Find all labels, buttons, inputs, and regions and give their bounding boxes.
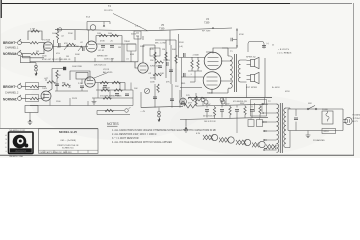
svg-text:NORMAL: NORMAL — [3, 52, 17, 56]
tube V7 — [86, 41, 97, 52]
left column wire — [181, 58, 183, 98]
wire — [39, 93, 45, 99]
heater socket H3 — [244, 139, 250, 145]
filter cap C11 — [250, 106, 254, 118]
logo donut center — [19, 140, 22, 143]
svg-text:3. * = 1 WATT RESISTOR: 3. * = 1 WATT RESISTOR — [112, 137, 139, 140]
dropping resistor R29 — [259, 105, 261, 118]
svg-text:350V: 350V — [179, 42, 184, 44]
wire to ground — [185, 119, 187, 126]
resistor R33 — [153, 73, 161, 75]
plate wire — [53, 46, 88, 48]
svg-text:4. ALL VOLTAGE READINGS WITH N: 4. ALL VOLTAGE READINGS WITH NO SIGNAL A… — [112, 141, 172, 144]
svg-text:B+ 445V: B+ 445V — [272, 87, 280, 89]
driver lower rail — [141, 84, 180, 108]
tube V3 — [85, 77, 95, 87]
svg-text:100K: 100K — [150, 82, 155, 84]
svg-text:7199: 7199 — [159, 28, 165, 31]
B+ center tap — [230, 73, 268, 75]
svg-text:470*: 470* — [188, 103, 192, 105]
lower bus ch2 — [30, 105, 133, 107]
resistor R7 — [99, 34, 107, 36]
core — [235, 54, 237, 92]
top jog to grid — [206, 52, 213, 54]
core — [280, 103, 282, 153]
resistor R5h — [67, 43, 75, 45]
resistor R4 — [56, 28, 58, 43]
chassis ground — [307, 131, 309, 136]
ground — [28, 122, 33, 125]
resistor R19 — [184, 104, 197, 108]
dropping resistor R28 — [244, 105, 246, 118]
resistor R3 — [31, 30, 39, 32]
shield box ch2 bright — [26, 83, 39, 90]
ground — [92, 102, 97, 105]
pot wiper arrow — [64, 45, 68, 50]
drops — [50, 98, 88, 106]
osc box loop — [96, 36, 122, 43]
stub cap C18 — [231, 38, 237, 41]
tube V5 — [138, 63, 148, 73]
tap end marks — [263, 103, 264, 151]
arrow — [185, 127, 188, 129]
svg-text:2.7M: 2.7M — [30, 29, 35, 31]
wire loop — [87, 22, 110, 31]
cap C16 — [170, 99, 174, 101]
loop cap C19 — [262, 46, 266, 48]
resistor R15 — [191, 57, 193, 71]
junction circle 2 — [221, 98, 225, 105]
resistor R16 — [197, 57, 199, 71]
svg-text:NOTES: NOTES — [107, 122, 119, 126]
filter cap C10 — [235, 106, 239, 118]
svg-text:LINDEN N.J. USA: LINDEN N.J. USA — [9, 155, 23, 158]
small corner box — [134, 31, 141, 39]
arrow — [158, 117, 161, 122]
svg-text:SPKR 2Ω: SPKR 2Ω — [246, 57, 256, 59]
top rail — [141, 106, 183, 107]
svg-text:DWN BY APP'D SCALE NO. DATE: DWN BY APP'D SCALE NO. DATE REV — [40, 151, 73, 154]
svg-text:1.4 —: 1.4 — — [135, 26, 142, 28]
wire to ground — [93, 98, 95, 102]
can cap rect 1 — [248, 118, 254, 126]
svg-text:E: E — [6, 147, 7, 149]
wire jack1 to grid — [22, 42, 31, 44]
wire — [23, 43, 45, 58]
cap C20 — [55, 84, 59, 86]
svg-text:6.8K: 6.8K — [130, 54, 135, 56]
resistor R10 — [112, 81, 120, 83]
twisted pair zigzag — [203, 135, 276, 149]
plate wires — [212, 48, 228, 93]
heater socket H4 — [259, 141, 265, 147]
resistor R11c — [103, 97, 111, 99]
bead 2 — [158, 114, 161, 117]
aux box — [150, 48, 160, 56]
svg-text:100K 4.7M: 100K 4.7M — [104, 59, 114, 61]
logo frame — [9, 132, 34, 154]
wire to ground — [30, 63, 36, 65]
resistor R11b — [114, 89, 122, 91]
svg-text:PRINTS THRU THE OF: PRINTS THRU THE OF — [57, 145, 79, 147]
svg-text:10K 7025 .01: 10K 7025 .01 — [94, 65, 107, 67]
bias loop — [248, 42, 264, 53]
cap C7 — [183, 73, 185, 77]
svg-text:1M: 1M — [36, 51, 39, 53]
cap C15 — [153, 97, 157, 99]
callout line — [94, 73, 108, 79]
junction dots — [236, 29, 237, 30]
wire — [22, 86, 31, 88]
svg-text:60 CY: 60 CY — [353, 121, 359, 123]
svg-text:7199: 7199 — [204, 22, 210, 25]
terminal blob — [63, 67, 66, 70]
input jack J1 — [15, 39, 21, 45]
filter cap C9 — [220, 106, 224, 118]
resistor R30 — [157, 84, 159, 92]
ground — [306, 135, 311, 138]
svg-text:425V: 425V — [285, 91, 290, 93]
svg-text:330V: 330V — [240, 103, 245, 105]
screen feed vertical — [236, 28, 238, 48]
lower line — [180, 117, 268, 119]
cathode resistor R17 — [195, 93, 197, 104]
svg-text:100K: 100K — [52, 33, 57, 35]
cap C2 — [101, 46, 105, 48]
svg-text:.02 .02: .02 .02 — [98, 50, 105, 52]
resistor R24 — [45, 80, 55, 83]
rectifier SR1 — [180, 98, 187, 105]
fuse F1 — [322, 111, 333, 124]
wire — [222, 47, 237, 49]
svg-text:BRIGHT: BRIGHT — [3, 41, 15, 45]
tap specks — [264, 122, 267, 149]
wire to ground — [29, 113, 31, 120]
svg-text:POLARIZED: POLARIZED — [313, 139, 325, 142]
ext speaker jack SP2 — [251, 72, 260, 83]
secondary winding HV — [277, 104, 279, 152]
resistor R22 — [30, 97, 38, 99]
pot box P1 — [76, 73, 88, 80]
resistor R12 — [154, 52, 156, 60]
feedback drop — [246, 84, 248, 98]
pot drops — [98, 83, 133, 106]
bottom strip — [39, 150, 99, 153]
box — [39, 129, 99, 154]
wire jack2 to grid — [22, 53, 32, 55]
leader line to T4 — [113, 14, 148, 32]
svg-text:.1 560K: .1 560K — [192, 55, 200, 57]
svg-text:INTLK: INTLK — [324, 131, 330, 133]
svg-text:POLARIZED: POLARIZED — [353, 114, 360, 117]
resistor R2 — [31, 53, 39, 55]
riser — [129, 107, 131, 109]
plate riser — [143, 45, 155, 63]
svg-text:117V A.C.: 117V A.C. — [353, 117, 360, 120]
coupling cap C1 — [58, 43, 60, 47]
wire — [247, 61, 251, 65]
svg-text:113 CPS: 113 CPS — [104, 10, 113, 12]
svg-text:± D.C. READS: ± D.C. READS — [277, 52, 292, 55]
cap C3 — [103, 86, 107, 88]
svg-text:68K .1 270K: 68K .1 270K — [155, 43, 167, 45]
shield bead 2 — [35, 69, 38, 72]
wire drops ch2 — [57, 78, 82, 91]
border frame — [2, 3, 290, 5]
shield bead 1 — [35, 65, 38, 68]
cap C1b — [82, 47, 84, 51]
svg-text:CHANNEL 2: CHANNEL 2 — [5, 92, 19, 95]
logo disc — [13, 135, 27, 149]
junction circle — [125, 109, 129, 113]
cap C17 — [166, 62, 168, 66]
svg-text:SPEED INT: SPEED INT — [97, 56, 108, 58]
choke can box — [251, 100, 267, 117]
heater socket H1 — [211, 134, 217, 140]
svg-text:470K: 470K — [239, 34, 244, 36]
wire — [97, 111, 130, 115]
tube V6 — [90, 25, 96, 31]
cap C4 — [115, 94, 119, 96]
svg-text:P.P. 7199: P.P. 7199 — [202, 31, 211, 33]
secondary winding — [238, 60, 246, 82]
junction circle B — [220, 98, 224, 106]
mid wire — [96, 89, 133, 91]
wire — [188, 71, 202, 82]
wire — [169, 31, 171, 46]
switch box — [127, 44, 136, 51]
wire — [96, 43, 136, 45]
input jack J3 — [15, 83, 21, 89]
tube V1 — [43, 42, 52, 51]
background mottling — [0, 0, 360, 158]
svg-text:1. ALL CAPACITORS IN MFD UNLES: 1. ALL CAPACITORS IN MFD UNLESS OTHERWIS… — [112, 129, 217, 132]
pot wiper arrow 2 — [78, 46, 82, 51]
bead 1 — [158, 111, 161, 114]
svg-text:NORMAL: NORMAL — [3, 98, 17, 102]
wire — [39, 42, 46, 44]
input jack J2 — [15, 50, 21, 56]
svg-text:100K 220K: 100K 220K — [72, 66, 83, 68]
svg-text:EXT SPKR: EXT SPKR — [246, 87, 257, 89]
driver network verticals — [155, 34, 179, 84]
rail junction circle — [58, 28, 61, 31]
svg-text:SCHEM. NO.: SCHEM. NO. — [62, 148, 74, 150]
svg-text:— 4V: — 4V — [140, 111, 146, 113]
separator line above title area — [0, 128, 98, 130]
svg-text:500K: 500K — [140, 46, 145, 48]
wire — [104, 22, 110, 25]
svg-text:425V: 425V — [206, 104, 211, 106]
logo word band — [10, 148, 32, 152]
primary leads — [286, 108, 290, 148]
vertical drop — [60, 57, 112, 62]
wire top — [143, 36, 176, 40]
svg-text:FUSE: FUSE — [322, 109, 328, 111]
svg-text:6.3V: 6.3V — [196, 133, 201, 135]
wire — [22, 98, 31, 100]
svg-text:10K 4.7K 12K: 10K 4.7K 12K — [204, 121, 216, 123]
arrow — [35, 71, 38, 76]
heater feed — [237, 117, 278, 147]
svg-text:500K: 500K — [75, 54, 80, 56]
ground — [184, 130, 189, 133]
logo tail — [24, 144, 28, 148]
resistor R21 — [30, 85, 38, 87]
wire bus to driver — [135, 62, 138, 68]
cap C6 — [183, 53, 185, 57]
cap C21 — [80, 86, 84, 88]
svg-text:1M: 1M — [66, 56, 69, 58]
resistor R13 — [165, 52, 167, 60]
svg-text:VOLUME TREBLE BASS: VOLUME TREBLE BASS — [100, 95, 122, 98]
driver aux circle — [144, 88, 149, 93]
lower wire — [92, 97, 133, 99]
svg-text:470K: 470K — [100, 41, 105, 43]
svg-text:+ B VOLTS: + B VOLTS — [278, 49, 290, 51]
svg-text:CHANNEL 1: CHANNEL 1 — [5, 47, 19, 50]
filter cap C8 — [205, 106, 209, 118]
resistor R9 — [100, 81, 108, 83]
svg-text:220K: 220K — [150, 78, 155, 80]
tone chain wire — [95, 83, 125, 91]
resistor R11 — [101, 89, 109, 91]
arrow — [103, 25, 105, 27]
AC plug P1 — [344, 117, 353, 124]
right column wire — [264, 58, 266, 97]
loop wire ch2 — [70, 71, 90, 80]
logo donut — [17, 138, 24, 145]
bias tap network — [262, 92, 268, 98]
winding taps — [263, 98, 277, 151]
input jack J4 — [15, 95, 21, 101]
svg-text:TREM: TREM — [124, 41, 130, 43]
svg-text:250K 1M: 250K 1M — [102, 88, 110, 90]
resistor R1 — [30, 42, 38, 44]
wire — [197, 104, 268, 106]
line cap C12 — [294, 109, 298, 131]
svg-text:10M: 10M — [97, 33, 101, 35]
svg-text:56K: 56K — [172, 49, 176, 51]
plate rail ch2 — [48, 69, 63, 92]
svg-text:410V: 410V — [225, 103, 230, 105]
wire — [39, 86, 47, 88]
tube V3 output upper — [204, 52, 222, 70]
wire — [55, 90, 88, 92]
cap C2b — [110, 46, 114, 48]
lower grid wire — [180, 87, 202, 89]
svg-text:2. ALL RESISTORS 1/2W, 10%: 2. ALL RESISTORS 1/2W, 10% K = 1000 Ω — [112, 133, 157, 136]
svg-text:1M: 1M — [118, 47, 121, 49]
primary winding — [227, 48, 229, 93]
caps — [158, 66, 162, 68]
svg-text:RED: RED — [181, 83, 186, 85]
shield box ch2 normal — [26, 95, 39, 102]
switch SW1 — [307, 106, 317, 110]
shield bead ground mid — [158, 108, 160, 111]
svg-text:40/ 40/ 40/ 20/: 40/ 40/ 40/ 20/ — [203, 116, 216, 118]
svg-text:25/25: 25/25 — [72, 98, 78, 100]
junction circle A — [201, 98, 205, 106]
wire — [247, 76, 251, 80]
cap pair below bus — [181, 98, 185, 104]
dropping resistor R27 — [229, 106, 231, 118]
tube V4 output lower — [203, 72, 221, 90]
vertical drops — [122, 36, 138, 62]
svg-text:220K: 220K — [68, 33, 73, 35]
junction dot — [212, 27, 213, 28]
circuit rect — [288, 109, 343, 131]
svg-text:(+6): (+6) — [179, 46, 183, 48]
svg-text:10M: 10M — [108, 33, 112, 35]
svg-text:ALL 7025: ALL 7025 — [103, 71, 113, 74]
resistor R14 — [175, 55, 177, 63]
primary winding — [284, 108, 286, 148]
svg-text:ampeg: ampeg — [15, 149, 26, 153]
svg-text:(*): (*) — [272, 45, 274, 47]
resistor R32 — [155, 61, 163, 63]
svg-text:47K: 47K — [150, 49, 154, 51]
wire B+ bus — [188, 97, 272, 99]
svg-text:P: P — [6, 143, 7, 145]
can cap rect 2 — [257, 118, 263, 126]
plate supply rail — [54, 28, 233, 62]
svg-text:V2,V3: V2,V3 — [103, 69, 110, 71]
wire down — [88, 30, 90, 44]
cap C5 — [125, 94, 129, 96]
svg-text:470K .047 1M .02 250K 68: 470K .047 1M .02 250K 68K .01 — [42, 59, 71, 61]
svg-text:(+): (+) — [267, 43, 270, 45]
svg-text:THE AMPEG CO INC: THE AMPEG CO INC — [9, 129, 26, 132]
svg-text:N.F.B. 100K: N.F.B. 100K — [150, 66, 161, 68]
resistor R8 — [110, 34, 118, 36]
junction circle 1 — [204, 98, 208, 105]
svg-text:2.2M: 2.2M — [74, 46, 79, 48]
resistor R34 — [105, 109, 113, 111]
resistor R31 — [56, 70, 58, 78]
svg-text:V1 7025: V1 7025 — [42, 40, 51, 42]
cathode network box — [21, 57, 31, 63]
feedback loop box ch1 — [28, 31, 42, 40]
bias box lower left — [25, 106, 38, 113]
speaker SP1 — [251, 57, 260, 68]
svg-text:OM — (2x7868): OM — (2x7868) — [60, 140, 76, 142]
resistor R25 — [62, 84, 70, 86]
svg-text:10K: 10K — [160, 73, 164, 75]
tube V2 — [41, 91, 51, 101]
arrow — [29, 119, 32, 121]
grid couplings — [178, 58, 205, 78]
wire screen — [220, 61, 232, 81]
B+ drop links — [196, 98, 226, 107]
main bus wire ch1 — [30, 61, 138, 63]
svg-text:MODEL B-25: MODEL B-25 — [59, 130, 77, 134]
heater socket H2 — [228, 137, 234, 143]
svg-text:1M: 1M — [162, 49, 165, 51]
interlock box — [322, 129, 336, 134]
svg-text:BRIGHT: BRIGHT — [3, 85, 15, 89]
svg-text:7025: 7025 — [42, 88, 48, 90]
dropping resistor R26 — [213, 106, 215, 118]
zigzag bias resistor R18 — [188, 97, 204, 101]
